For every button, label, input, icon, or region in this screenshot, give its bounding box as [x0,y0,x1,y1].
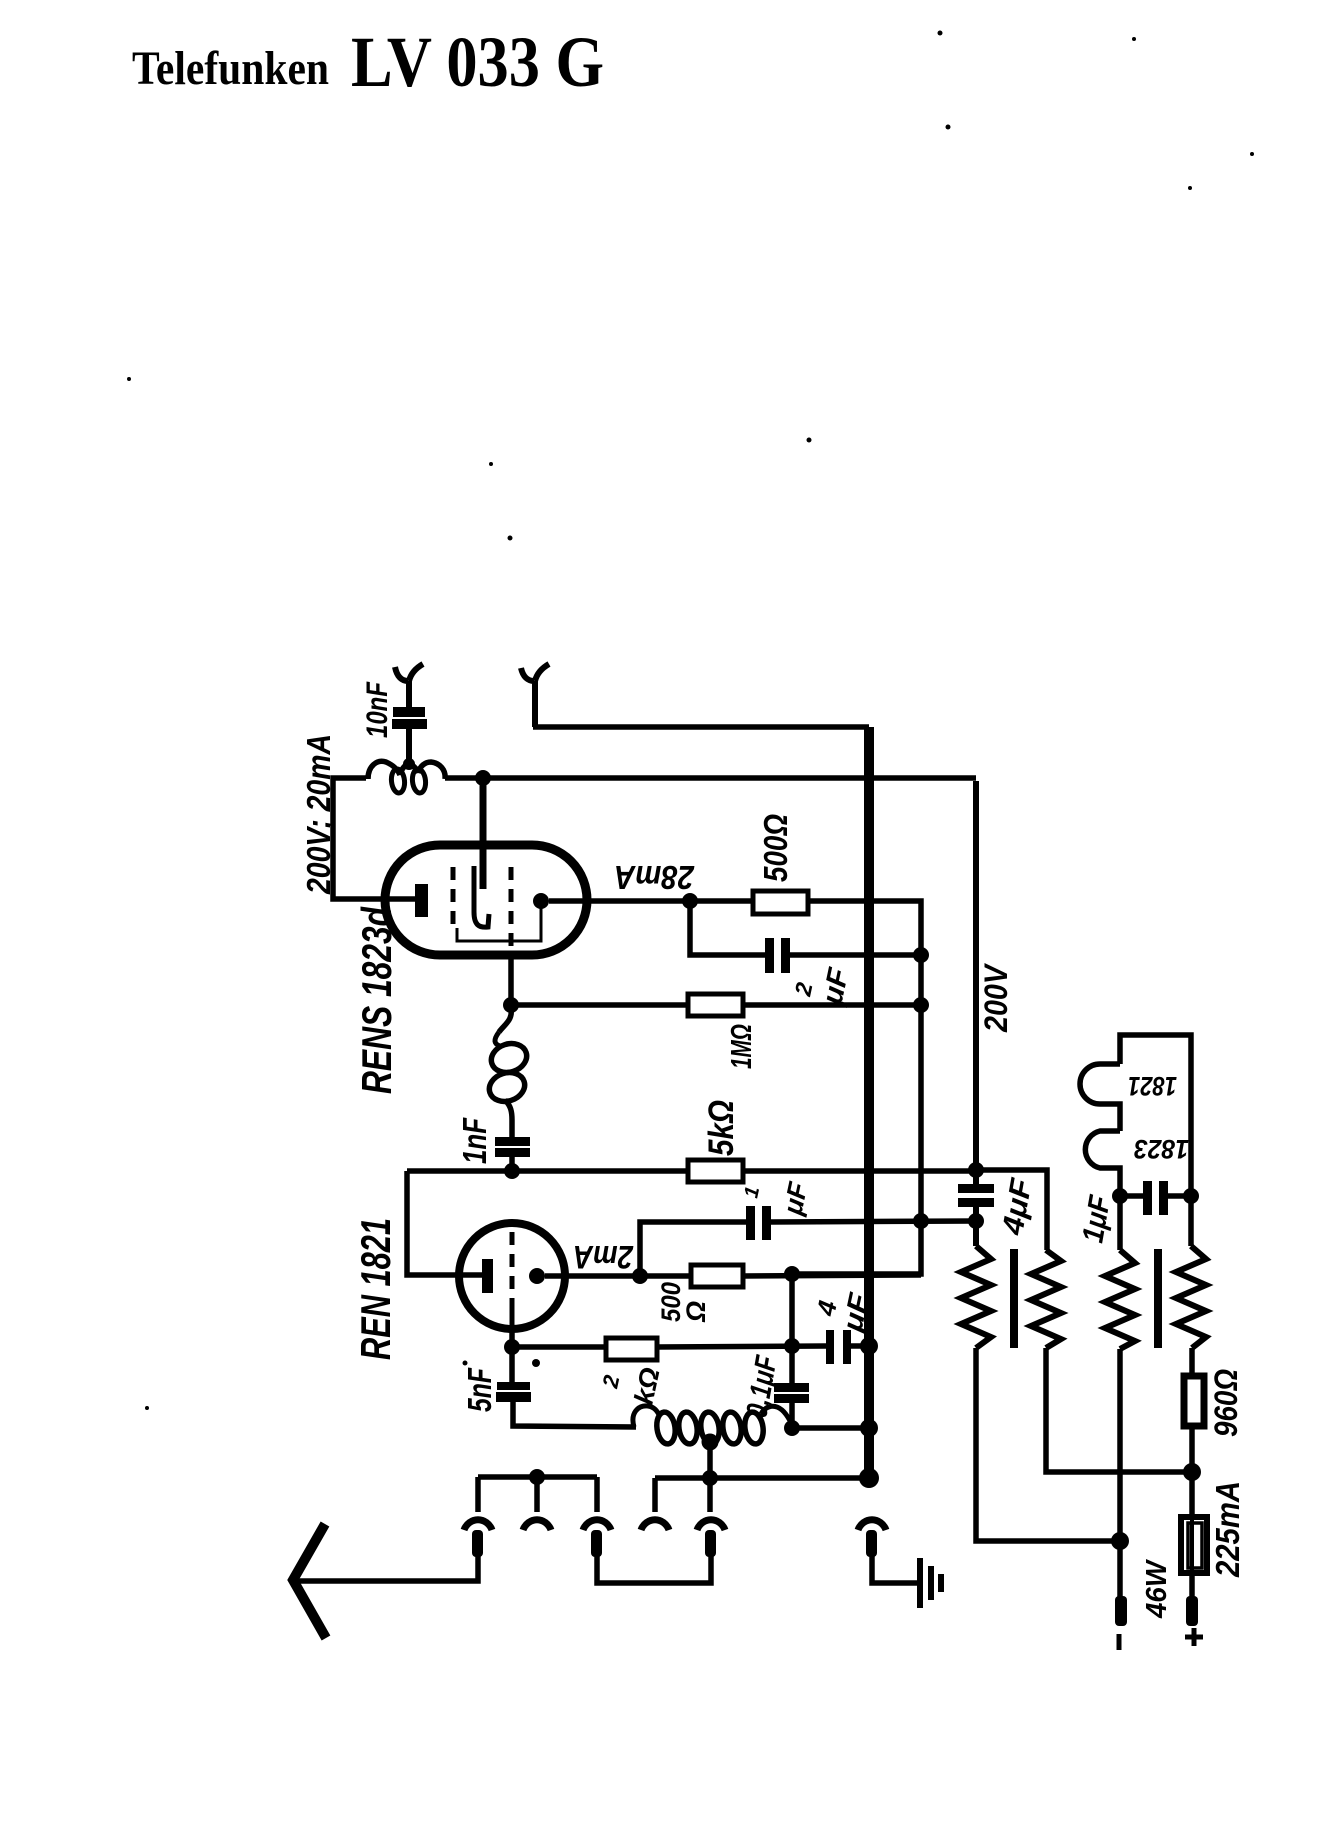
node grid3 junction [503,997,519,1013]
svg-text:Telefunken: Telefunken [132,42,329,95]
socket pin P6 [866,1530,877,1557]
coil L2 cathode choke [488,1039,531,1077]
wire coil left to tube cathode [333,778,416,899]
wire grid row y1171 [407,1170,1047,1250]
wire heater left down to R3 [1117,1196,1123,1250]
capacitor C3 1nF [495,1137,530,1146]
svg-text:1MΩ: 1MΩ [726,1024,758,1069]
wire heater right down to R4 [1188,1196,1194,1246]
resistor R9 2k [606,1338,657,1360]
svg-text:1nF: 1nF [456,1117,493,1164]
tube V1 cathode [415,884,428,917]
specks [127,31,1254,1411]
node grid row junction [504,1163,520,1179]
wire heater cap row [1120,1193,1191,1199]
bar between R1 R2 [1010,1249,1018,1348]
node coil3 tap [702,1434,719,1451]
wire R2 bottom to plus rail [1046,1348,1188,1472]
resistor R2 zigzag [1031,1250,1061,1348]
capacitor C2 2uF [765,938,774,973]
node heater right [1183,1188,1199,1204]
coil L3 filament choke [633,1406,794,1427]
bus heavy vertical [864,727,874,1478]
capacitor C5 5nF [497,1382,530,1390]
node 200V grid row [968,1162,984,1178]
svg-text:1823: 1823 [1134,1134,1189,1164]
node heater left [1112,1188,1128,1204]
wire pin1 to antenna [292,1556,478,1581]
node plus rail [1183,1463,1201,1481]
socket contact S3 [583,1520,611,1530]
wire left branch to cathode 1821 [407,1171,482,1275]
wire 500ohm to right corner [792,901,921,1274]
tube V1 RENS1823d envelope [385,845,587,955]
wire 0.1uF vertical [789,1274,795,1428]
wire junction A down to screen grid [480,781,487,889]
antenna input terminal T1 fork [395,664,423,707]
resistor R10 960 ohm [1184,1376,1204,1426]
node 2uF right [913,947,929,963]
node socket row left [529,1469,545,1485]
socket pin P5 [705,1530,716,1557]
svg-text:10nF: 10nF [361,681,394,738]
node anode 1821 junction [632,1268,648,1284]
wire 2k row [512,1346,869,1347]
wire anode 1823 to resistor [549,898,753,904]
node 1M right [913,997,929,1013]
resistor R3 zigzag [1105,1250,1135,1349]
wire 200V vertical [973,781,979,1246]
svg-text:28mA: 28mA [614,859,695,896]
svg-text:2mA: 2mA [573,1239,634,1275]
wire 2uF branch [690,901,921,955]
socket pin P1 [472,1530,483,1557]
wire 1M ohm row [511,1002,921,1008]
svg-text:200V; 20mA: 200V; 20mA [300,734,337,895]
wire coil3 center tap [707,1440,713,1478]
node 1uF bus crossing [913,1213,929,1229]
wire coil2 to 1nF [505,1100,512,1168]
wire grid 1821 down [512,1329,636,1427]
wire T2 to bus [533,724,869,730]
resistor R1 zigzag [961,1246,991,1348]
node 4uF bus junction [860,1337,878,1355]
wire anode 1821 row [545,1275,921,1276]
socket contact S5 [697,1520,725,1530]
node 0.1uF coil junction [784,1420,800,1436]
antenna input terminal T2 fork [521,664,549,727]
tube V2 grid dashed [510,1232,515,1300]
socket contact S2 [523,1520,551,1530]
fuse F1 225mA [1181,1517,1207,1573]
terminal minus pin [1115,1596,1127,1626]
label minus [1117,1634,1122,1650]
socket pin P3 [591,1530,602,1557]
svg-text:960Ω: 960Ω [1208,1369,1244,1437]
capacitor C4 1uF [746,1206,755,1240]
tube V1 anode [533,893,549,909]
wire R3 bottom long to minus terminal [1117,1349,1123,1598]
wire grid3 below tube [508,951,514,1005]
svg-text:1821: 1821 [1128,1071,1177,1101]
svg-text:500Ω: 500Ω [757,814,794,882]
wire socket row left [478,1477,597,1512]
terminal plus pin [1186,1596,1198,1626]
resistor R4 zigzag [1176,1246,1206,1348]
node coil top junction [403,758,415,770]
wire R1 bottom to minus rail [976,1348,1117,1541]
tube V1 screen grid [474,866,489,927]
svg-text:5nF: 5nF [461,1367,498,1412]
capacitor C1 10nF [393,707,425,717]
node bus bottom [859,1468,879,1488]
wire coil3 right to bus [792,1425,869,1431]
wire pin6 to ground [872,1556,918,1583]
resistor R6 1M ohm [688,994,743,1016]
socket contact S1 [464,1520,492,1530]
svg-text:5kΩ: 5kΩ [702,1100,741,1156]
resistor R5 500 ohm [753,891,808,914]
svg-text:46W: 46W [1141,1558,1173,1618]
wire socket row right [655,1478,869,1512]
node 200V 1uF end [968,1213,984,1229]
svg-text:LV 033 G: LV 033 G [351,22,604,102]
antenna symbol [293,1524,326,1638]
capacitor C7 0.1uF [774,1383,809,1392]
svg-text:225mA: 225mA [1209,1481,1246,1578]
wire junction to cathode coil [499,1008,511,1032]
tube V2 anode [529,1268,545,1284]
svg-text:RENS 1823d: RENS 1823d [353,906,400,1094]
wire 1uF branch [640,1221,976,1276]
resistor R8 500 ohm [691,1265,743,1287]
node anode junction [682,893,698,909]
wire R4 to 960 ohm to fuse [1189,1348,1195,1598]
tube V2 REN1821 envelope [459,1223,565,1329]
label plus [1185,1628,1203,1646]
wire T1 cap to coil [406,729,412,764]
node coil bus junction [860,1419,878,1437]
node 500 ohm right junction [784,1266,800,1282]
capacitor C8 4uF right [958,1184,994,1193]
tube V2 cathode [482,1259,493,1293]
node grid 1821 junction [504,1339,520,1355]
svg-text:200V: 200V [978,963,1014,1033]
ground symbol [920,1558,941,1608]
choke coil L1 200V 20mA [368,761,445,779]
tube V1 grid3 dashed [509,867,514,951]
wire coil right to 200V corner [445,775,976,781]
heater loop 1821/1823 [1080,1035,1191,1196]
node 2k right junction [784,1338,800,1354]
svg-text:Ω: Ω [681,1301,711,1323]
tube V1 grid1 dashed [451,867,456,932]
node socket row mid [702,1470,718,1486]
capacitor C6 4uF [826,1330,834,1364]
wire pin3 to pin5 [597,1556,711,1583]
svg-text:REN 1821: REN 1821 [352,1218,399,1360]
bar between R3 R4 [1154,1249,1162,1348]
tube V1 internal link [457,908,541,941]
node minus rail [1111,1532,1129,1550]
socket contact S6 [858,1520,886,1530]
capacitor C9 1uF heater [1143,1181,1152,1215]
node A coil junction [475,770,491,786]
resistor R7 5k [688,1160,743,1182]
socket contact S4 [641,1520,669,1530]
